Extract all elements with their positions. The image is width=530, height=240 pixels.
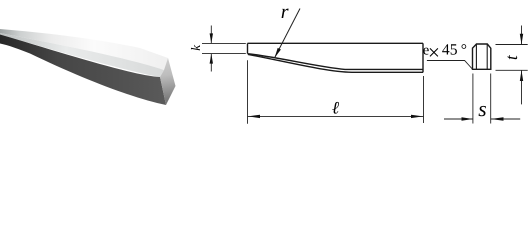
svg-text:45: 45 [442, 42, 458, 59]
svg-text:°: ° [461, 42, 467, 59]
svg-text:k: k [188, 45, 203, 51]
svg-text:t: t [502, 54, 521, 60]
svg-text:ℓ: ℓ [332, 98, 340, 118]
svg-text:r: r [281, 1, 289, 23]
svg-text:s: s [478, 97, 486, 121]
svg-text:×: × [428, 40, 440, 64]
